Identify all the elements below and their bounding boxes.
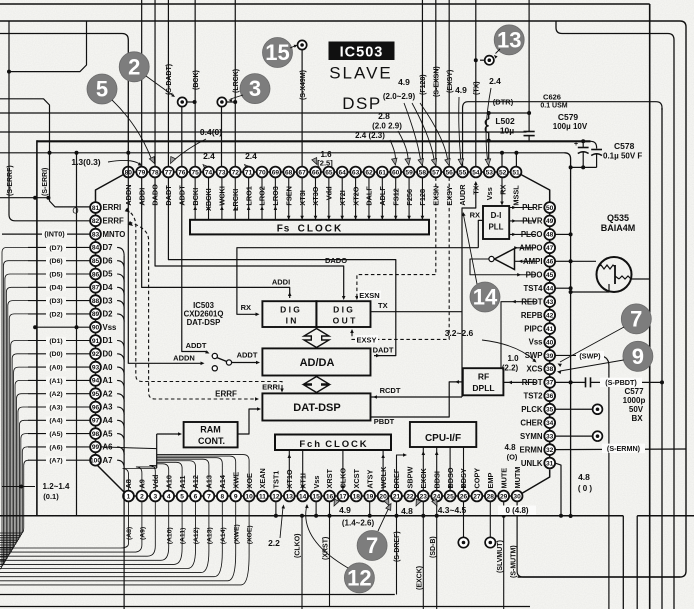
svg-text:D5: D5 xyxy=(103,270,114,279)
svg-text:MNTO: MNTO xyxy=(103,230,126,239)
svg-text:EMP: EMP xyxy=(486,473,495,489)
svg-text:84: 84 xyxy=(92,245,100,252)
svg-text:31: 31 xyxy=(546,460,554,467)
capacitor C626 xyxy=(524,131,535,133)
left data-address hook wires xyxy=(28,246,90,248)
wire y152 xyxy=(0,152,128,154)
pin26 TP xyxy=(463,501,465,537)
svg-text:D1: D1 xyxy=(103,336,114,345)
svg-text:92: 92 xyxy=(92,351,100,358)
inductor L502 xyxy=(487,139,491,143)
svg-text:(CLKO): (CLKO) xyxy=(294,534,301,559)
svg-text:(O): (O) xyxy=(507,453,518,462)
svg-text:BAIA4M: BAIA4M xyxy=(601,223,636,233)
svg-text:1: 1 xyxy=(127,493,131,500)
wire UNLK xyxy=(555,463,561,516)
svg-text:91: 91 xyxy=(92,338,100,345)
pin53 riser xyxy=(488,141,490,167)
svg-text:19: 19 xyxy=(366,493,374,500)
wire cap bottoms xyxy=(571,166,597,168)
svg-text:4.8: 4.8 xyxy=(504,443,516,452)
svg-text:(A13): (A13) xyxy=(207,527,214,544)
svg-text:77: 77 xyxy=(165,169,173,176)
wire RFDT to RF DPLL xyxy=(503,381,536,383)
svg-text:(A4): (A4) xyxy=(49,418,62,425)
block Fch CLOCK xyxy=(275,435,391,451)
svg-text:CONT.: CONT. xyxy=(198,436,225,446)
svg-text:33: 33 xyxy=(546,433,554,440)
left data-address wire labels xyxy=(46,244,66,252)
wire y113 xyxy=(0,112,529,114)
svg-text:RAM: RAM xyxy=(200,425,221,435)
svg-text:(F128): (F128) xyxy=(420,74,427,95)
svg-text:(S-ERRI): (S-ERRI) xyxy=(42,168,49,196)
svg-text:(A11): (A11) xyxy=(180,528,187,545)
svg-text:DPLL: DPLL xyxy=(472,383,494,393)
wire RAM in xyxy=(157,433,180,435)
svg-text:70: 70 xyxy=(258,169,266,176)
svg-text:D0: D0 xyxy=(103,350,114,359)
svg-text:1.2~1.4: 1.2~1.4 xyxy=(43,482,70,491)
svg-text:ERMN: ERMN xyxy=(520,445,543,454)
svg-text:TST4: TST4 xyxy=(523,284,543,293)
svg-text:59: 59 xyxy=(405,169,413,176)
svg-text:ERRF: ERRF xyxy=(103,217,124,226)
left data bus vertical xyxy=(123,255,125,609)
svg-text:COPY: COPY xyxy=(473,468,482,489)
svg-text:EXSN: EXSN xyxy=(359,291,379,300)
svg-text:30: 30 xyxy=(513,493,521,500)
svg-text:2.4: 2.4 xyxy=(203,151,215,161)
label EXSY xyxy=(355,335,378,344)
svg-text:72: 72 xyxy=(232,169,240,176)
svg-text:ADDT: ADDT xyxy=(186,341,207,350)
svg-text:SYMN: SYMN xyxy=(520,432,543,441)
wire top bus 3 right xyxy=(556,21,674,609)
svg-text:(S-DREF): (S-DREF) xyxy=(394,531,401,562)
svg-text:27: 27 xyxy=(473,493,481,500)
svg-text:F c h C L O C K: F c h C L O C K xyxy=(299,439,366,450)
wire SWP xyxy=(555,354,597,356)
svg-text:(D6): (D6) xyxy=(49,258,62,265)
svg-text:52: 52 xyxy=(499,169,507,176)
balloon 14 xyxy=(470,282,500,312)
svg-text:PBDT: PBDT xyxy=(374,417,395,426)
svg-text:95: 95 xyxy=(92,391,100,398)
stubs pins 12 15 19 xyxy=(275,501,277,515)
left bus curls xyxy=(117,247,124,255)
corner link 80-81 xyxy=(96,175,124,203)
svg-text:EXSY: EXSY xyxy=(356,335,376,344)
svg-text:74: 74 xyxy=(205,169,213,176)
block RF DPLL xyxy=(463,368,504,395)
svg-text:(A8): (A8) xyxy=(126,527,133,540)
wire left jog y71 xyxy=(9,21,87,72)
svg-text:55: 55 xyxy=(459,169,467,176)
transistor Q535 xyxy=(597,257,632,292)
C626 net vert x529 xyxy=(528,0,530,131)
svg-text:53: 53 xyxy=(486,169,494,176)
svg-text:A0: A0 xyxy=(103,363,114,372)
svg-text:50: 50 xyxy=(546,205,554,212)
svg-text:57: 57 xyxy=(432,169,440,176)
svg-text:(1.4~2.6): (1.4~2.6) xyxy=(342,519,375,528)
testpoint TP near pin76 xyxy=(182,101,195,103)
svg-text:Vss: Vss xyxy=(103,323,118,332)
wire RX D-PLL to DIG IN xyxy=(478,220,483,247)
svg-text:58: 58 xyxy=(419,169,427,176)
svg-text:0.1µ 50V F: 0.1µ 50V F xyxy=(603,152,642,161)
svg-text:SBPW: SBPW xyxy=(406,466,415,488)
svg-text:2.4: 2.4 xyxy=(245,151,257,161)
svg-text:(A2): (A2) xyxy=(49,391,62,398)
corner link 30-31 xyxy=(523,470,550,494)
wire x76 vert xyxy=(76,153,78,516)
wire top bus 1 xyxy=(0,3,650,5)
svg-text:3.2~2.6: 3.2~2.6 xyxy=(445,328,474,338)
svg-text:PIPC: PIPC xyxy=(524,324,543,333)
svg-text:(A14): (A14) xyxy=(220,527,227,544)
pin54 riser TX with TP xyxy=(475,0,477,167)
svg-text:10: 10 xyxy=(245,493,253,500)
RAM bus vertical xyxy=(156,434,158,468)
IC503 right pin column 31-50 xyxy=(544,458,555,469)
svg-text:62: 62 xyxy=(365,169,373,176)
svg-text:ATSY: ATSY xyxy=(365,469,374,488)
block Fs CLOCK xyxy=(190,220,429,235)
svg-text:75: 75 xyxy=(192,169,200,176)
wire SYMN TP xyxy=(555,435,592,437)
svg-text:DSP: DSP xyxy=(342,94,381,113)
wire PLRF xyxy=(509,207,536,209)
svg-text:51: 51 xyxy=(512,169,520,176)
wire pin52 RX stub xyxy=(501,177,503,203)
svg-text:C626: C626 xyxy=(543,93,561,102)
svg-text:(A12): (A12) xyxy=(193,527,200,544)
leader 2.8 stack arrows xyxy=(398,131,408,162)
svg-text:28: 28 xyxy=(487,493,495,500)
svg-text:2: 2 xyxy=(128,54,140,79)
wire ERRI dashed xyxy=(125,208,130,213)
svg-text:100: 100 xyxy=(90,458,101,465)
balloon 12 xyxy=(344,563,374,593)
svg-text:(0.1): (0.1) xyxy=(43,492,59,501)
svg-text:67: 67 xyxy=(298,169,306,176)
svg-text:(DTR): (DTR) xyxy=(493,98,514,107)
svg-text:4: 4 xyxy=(167,493,171,500)
svg-text:71: 71 xyxy=(245,169,253,176)
wire ERMN S-ERMN xyxy=(555,448,686,451)
IC503 left pin column 81-100 xyxy=(90,202,101,213)
svg-text:A2: A2 xyxy=(103,389,114,398)
svg-text:(D2): (D2) xyxy=(49,311,62,318)
svg-text:25: 25 xyxy=(446,493,454,500)
wire RCDT xyxy=(371,396,463,398)
svg-text:XCS: XCS xyxy=(526,365,542,374)
svg-text:78: 78 xyxy=(151,169,159,176)
svg-text:5: 5 xyxy=(96,77,108,102)
testpoint TP near pin73 xyxy=(222,101,236,103)
svg-text:(SWP): (SWP) xyxy=(579,351,601,360)
pin99 wire to bus xyxy=(101,447,157,449)
block RAM CONT xyxy=(184,422,238,447)
label (S-ERMN) xyxy=(602,444,645,453)
svg-text:7: 7 xyxy=(366,533,378,558)
svg-text:48: 48 xyxy=(546,232,554,239)
svg-text:7: 7 xyxy=(207,493,211,500)
svg-text:DADO: DADO xyxy=(325,256,347,265)
balloon 5 xyxy=(87,74,117,104)
svg-text:20: 20 xyxy=(379,493,387,500)
svg-text:17: 17 xyxy=(339,493,347,500)
wire right vert x662 xyxy=(661,108,663,609)
svg-text:MUTM: MUTM xyxy=(513,467,522,489)
wire PLCO xyxy=(509,233,536,235)
svg-text:DAT-DSP: DAT-DSP xyxy=(187,318,221,327)
wire REDT xyxy=(501,302,536,369)
pin30 MUTM down xyxy=(517,501,680,577)
svg-text:39: 39 xyxy=(546,353,554,360)
svg-text:XEAN: XEAN xyxy=(258,468,267,488)
svg-text:85: 85 xyxy=(92,258,100,265)
svg-text:1000p: 1000p xyxy=(623,396,646,405)
pin83 INT0 wire xyxy=(2,233,90,235)
svg-text:O U T: O U T xyxy=(333,316,356,326)
svg-text:45: 45 xyxy=(546,272,554,279)
svg-text:46: 46 xyxy=(546,259,554,266)
pin90 Vss wire xyxy=(35,326,90,328)
svg-text:4.9: 4.9 xyxy=(339,505,351,515)
svg-text:TST1: TST1 xyxy=(272,471,281,489)
balloon 13 xyxy=(494,25,524,55)
label EXSN xyxy=(358,291,381,300)
pin51 riser xyxy=(515,153,517,167)
corner link 100-1 xyxy=(98,466,125,493)
svg-text:(A1): (A1) xyxy=(49,378,62,385)
wire RFDT S-PBDT xyxy=(555,381,585,383)
wire left y98 S-ERRI xyxy=(0,99,90,207)
pin52 riser xyxy=(501,153,503,167)
svg-text:97: 97 xyxy=(92,418,100,425)
svg-text:23: 23 xyxy=(420,493,428,500)
wire pin80 ADDN xyxy=(128,167,202,364)
svg-text:(2.0 2.9): (2.0 2.9) xyxy=(372,122,402,131)
svg-text:(2.0~2.9): (2.0~2.9) xyxy=(383,92,416,101)
pin29 MUTE down xyxy=(503,501,505,609)
svg-text:MUTE: MUTE xyxy=(499,468,508,489)
pin21 DREF wire xyxy=(397,455,406,491)
svg-text:87: 87 xyxy=(92,285,100,292)
svg-text:(A6): (A6) xyxy=(49,444,62,451)
svg-text:73: 73 xyxy=(218,169,226,176)
svg-text:54: 54 xyxy=(472,169,480,176)
svg-text:CHER: CHER xyxy=(520,418,542,427)
block D-PLL xyxy=(483,206,509,239)
svg-text:(S-MUTM): (S-MUTM) xyxy=(510,545,517,578)
svg-text:65: 65 xyxy=(325,169,333,176)
wire AMPO xyxy=(515,247,537,249)
svg-text:6: 6 xyxy=(194,493,198,500)
block AD/DA xyxy=(262,348,370,375)
svg-text:79: 79 xyxy=(138,169,146,176)
svg-text:81: 81 xyxy=(92,205,100,212)
bottom row links xyxy=(134,495,137,497)
svg-text:(A5): (A5) xyxy=(49,431,62,438)
svg-text:12: 12 xyxy=(272,493,280,500)
svg-text:(S-ERRF): (S-ERRF) xyxy=(7,165,14,196)
svg-text:RF: RF xyxy=(478,372,489,382)
svg-text:MSSL: MSSL xyxy=(512,185,521,206)
svg-text:D4: D4 xyxy=(103,283,114,292)
svg-text:+: + xyxy=(574,141,578,148)
svg-text:CPU-I/F: CPU-I/F xyxy=(425,433,461,444)
svg-text:0.4(0): 0.4(0) xyxy=(200,127,222,137)
svg-text:BX: BX xyxy=(631,414,643,423)
svg-text:100µ 10V: 100µ 10V xyxy=(553,122,588,131)
svg-text:D6: D6 xyxy=(103,256,114,265)
Fch stubs xyxy=(288,450,290,491)
svg-text:35: 35 xyxy=(546,407,554,414)
switch ADDT/ADDN xyxy=(212,353,217,358)
svg-text:64: 64 xyxy=(339,169,347,176)
svg-text:F s C L O C K: F s C L O C K xyxy=(277,223,342,234)
wire PLVR xyxy=(509,220,536,222)
svg-text:13: 13 xyxy=(497,28,521,53)
balloon 7 right xyxy=(621,304,651,334)
svg-text:D I G: D I G xyxy=(333,305,353,315)
leader 4.9b pin55 xyxy=(459,97,461,163)
svg-text:(D3): (D3) xyxy=(49,298,62,305)
right column links xyxy=(549,455,551,458)
svg-text:C578: C578 xyxy=(614,141,635,151)
op-amp U1 xyxy=(495,249,515,270)
label (S-PBDT) xyxy=(600,378,642,387)
label (INT0) xyxy=(42,230,67,238)
svg-text:Vss: Vss xyxy=(312,476,321,489)
svg-text:66: 66 xyxy=(312,169,320,176)
svg-text:( 0 ): ( 0 ) xyxy=(578,484,593,493)
svg-text:94: 94 xyxy=(92,378,100,385)
svg-text:68: 68 xyxy=(285,169,293,176)
svg-text:AUDR: AUDR xyxy=(458,184,467,206)
svg-text:TX: TX xyxy=(378,301,388,310)
svg-text:A3: A3 xyxy=(103,403,114,412)
svg-text:RX: RX xyxy=(470,211,480,220)
pin23 EXCK down xyxy=(422,501,424,609)
pin58 stub xyxy=(421,177,423,219)
svg-text:96: 96 xyxy=(92,404,100,411)
svg-text:69: 69 xyxy=(272,169,280,176)
block DIG OUT xyxy=(316,301,370,327)
IC503 bottom pin row 1-30 xyxy=(123,491,134,502)
svg-text:43: 43 xyxy=(546,299,554,306)
svg-text:14: 14 xyxy=(299,493,307,500)
svg-text:29: 29 xyxy=(500,493,508,500)
svg-text:8: 8 xyxy=(220,493,224,500)
svg-text:(XOE): (XOE) xyxy=(247,525,254,544)
IC outer box left edge xyxy=(36,140,38,516)
svg-text:D-I: D-I xyxy=(491,211,502,220)
svg-text:83: 83 xyxy=(92,231,100,238)
wire bottom right x623 xyxy=(622,516,624,609)
svg-text:13: 13 xyxy=(286,493,294,500)
wire pin76 ADDT xyxy=(182,177,206,351)
svg-text:4.8: 4.8 xyxy=(401,506,413,516)
svg-text:4.3~4.5: 4.3~4.5 xyxy=(438,505,467,515)
bottom staircase bus xyxy=(0,501,129,548)
CPU stubs xyxy=(422,447,424,491)
RAM bus pin hooks xyxy=(123,469,157,491)
svg-text:ERRF: ERRF xyxy=(215,390,237,399)
svg-text:(EXSY): (EXSY) xyxy=(447,70,454,93)
svg-text:A1: A1 xyxy=(103,376,114,385)
pin67 riser and TP S-X49M xyxy=(301,50,303,167)
top risers xyxy=(141,0,143,167)
block DAT-DSP xyxy=(262,393,370,420)
svg-text:UNLK: UNLK xyxy=(521,459,543,468)
svg-text:89: 89 xyxy=(92,311,100,318)
svg-text:(A10): (A10) xyxy=(166,527,173,544)
svg-text:60: 60 xyxy=(392,169,400,176)
svg-text:(SLVMUT): (SLVMUT) xyxy=(497,540,504,573)
svg-text:(S-X49M): (S-X49M) xyxy=(300,70,307,100)
wire RAM to DAT-DSP xyxy=(238,409,259,434)
svg-text:ADDI: ADDI xyxy=(272,278,290,287)
svg-text:9: 9 xyxy=(632,344,644,369)
svg-text:RX: RX xyxy=(498,185,507,195)
svg-text:D3: D3 xyxy=(103,296,114,305)
bus arrow DIG-ADDA xyxy=(304,329,329,348)
corner link 51-50 xyxy=(521,175,550,203)
svg-text:REPB: REPB xyxy=(521,311,543,320)
Fs CLOCK pin stubs xyxy=(408,177,410,219)
svg-text:PLCK: PLCK xyxy=(521,405,543,414)
wire TX xyxy=(371,312,463,397)
wire bottom y594 xyxy=(0,594,395,596)
svg-text:(D7): (D7) xyxy=(49,245,62,252)
svg-text:88: 88 xyxy=(92,298,100,305)
svg-text:(INT0): (INT0) xyxy=(44,230,65,239)
svg-text:A4: A4 xyxy=(103,416,114,425)
IC outer box top edge xyxy=(37,140,591,142)
svg-text:(A9): (A9) xyxy=(140,527,147,540)
svg-text:PLL: PLL xyxy=(488,223,503,232)
svg-text:2.4 (2.3): 2.4 (2.3) xyxy=(355,131,385,140)
svg-text:7: 7 xyxy=(630,307,642,332)
svg-text:1.0: 1.0 xyxy=(507,354,519,363)
balloon 15 xyxy=(263,38,293,68)
svg-text:D2: D2 xyxy=(103,310,114,319)
svg-text:1.3(0.3): 1.3(0.3) xyxy=(71,157,100,167)
wire y152 right xyxy=(128,152,564,154)
pin28 TP xyxy=(489,501,491,537)
svg-text:4.8: 4.8 xyxy=(578,472,590,482)
svg-text:L502: L502 xyxy=(495,116,515,126)
svg-text:93: 93 xyxy=(92,364,100,371)
svg-text:Vss: Vss xyxy=(485,187,494,200)
wire y132 xyxy=(0,131,527,133)
balloon 3 xyxy=(240,74,270,104)
svg-text:2: 2 xyxy=(140,493,144,500)
pin55 riser DTR wire xyxy=(463,102,662,167)
svg-text:2.4: 2.4 xyxy=(489,76,501,86)
wire pins48 46 44 to x570 xyxy=(555,233,571,235)
svg-text:ERRI: ERRI xyxy=(262,383,280,392)
svg-text:(A7): (A7) xyxy=(49,458,62,465)
svg-text:Q535: Q535 xyxy=(607,213,629,223)
svg-text:(S-EXSN): (S-EXSN) xyxy=(433,66,440,97)
svg-text:37: 37 xyxy=(546,380,554,387)
